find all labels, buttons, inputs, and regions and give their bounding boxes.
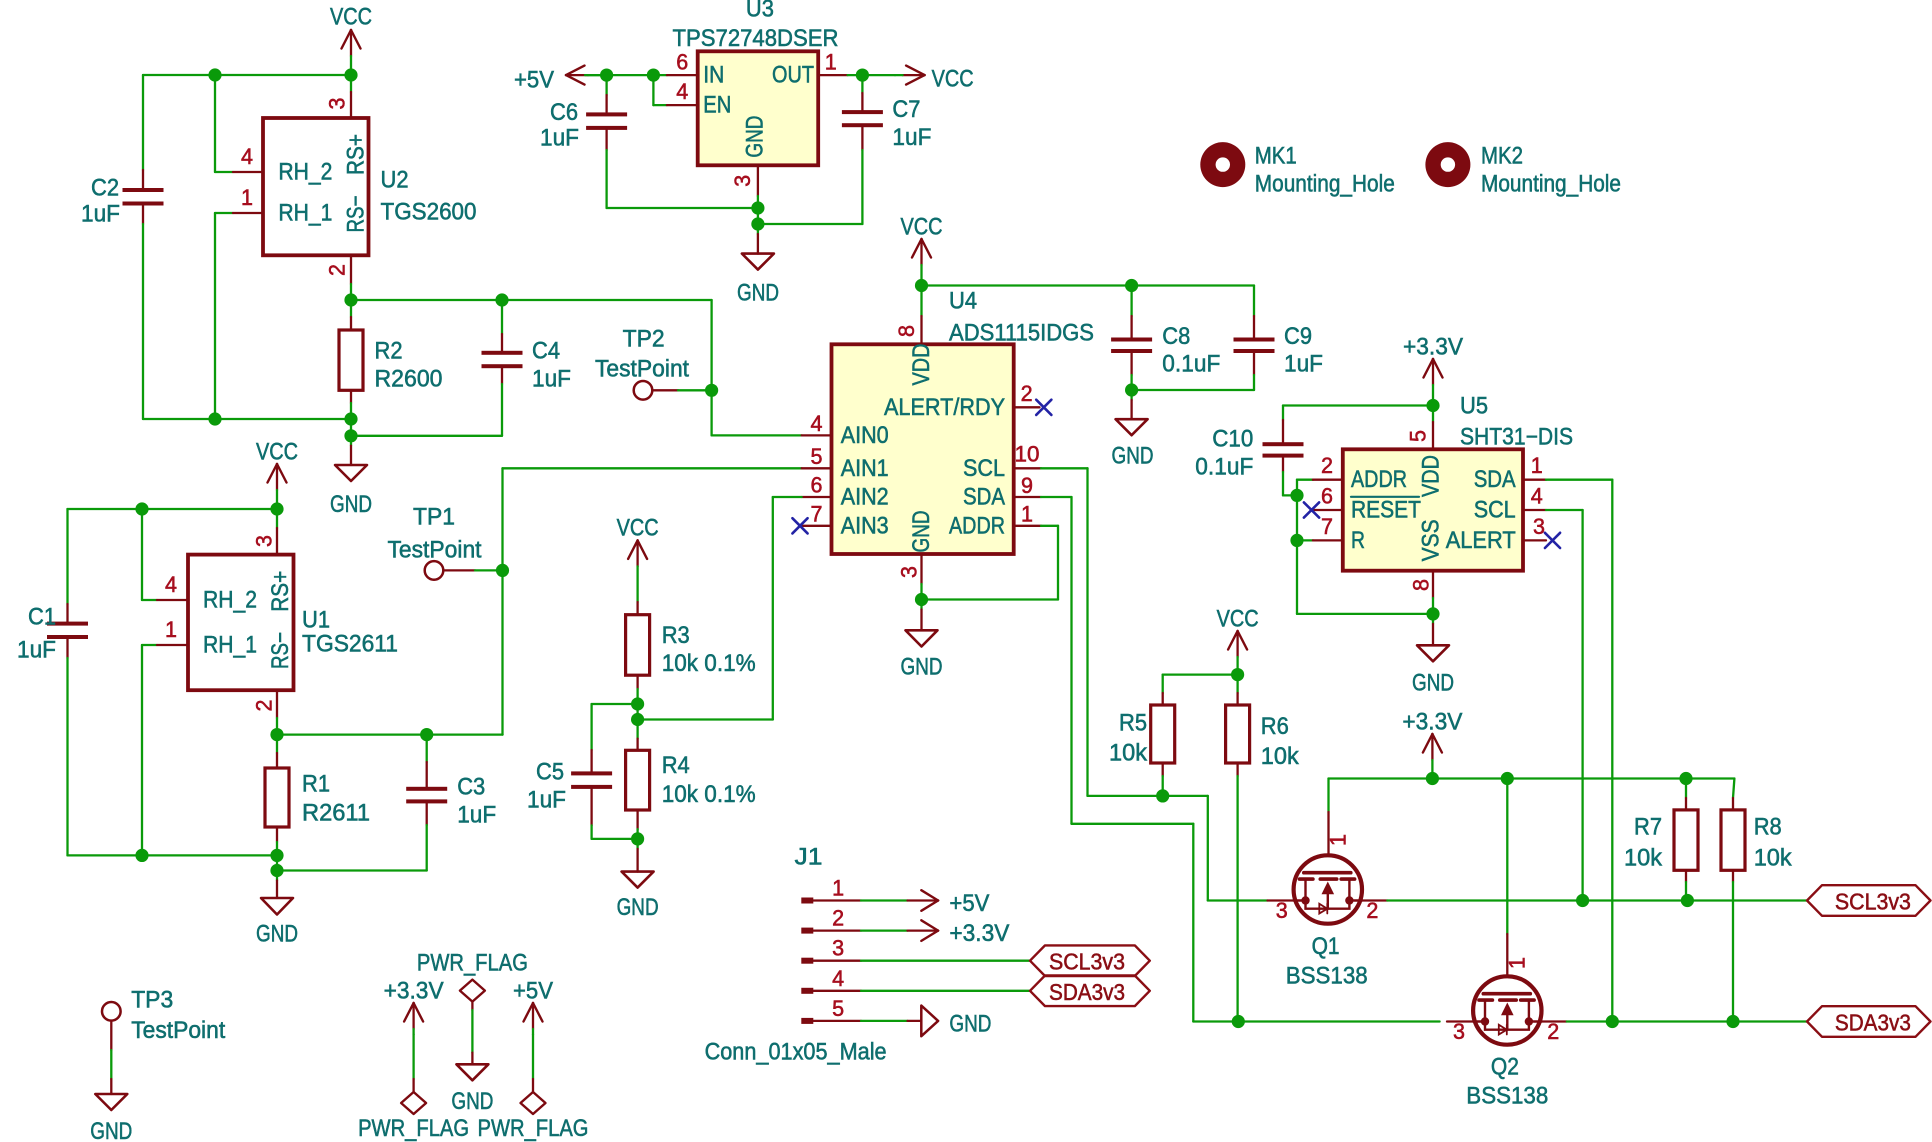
junction [420,728,433,741]
junction [751,201,764,214]
ground GND (U4) [901,600,943,681]
power flag GND [417,950,528,1116]
power symbol VCC (U2) [330,4,372,76]
svg-text:1: 1 [1326,834,1351,846]
junction [1426,772,1439,785]
power symbol VCC (R3) [617,515,659,603]
svg-text:R2600: R2600 [375,366,443,393]
svg-text:R: R [1351,527,1365,554]
junction [1501,772,1514,785]
U5 pin 7 [1313,514,1343,541]
hierarchical label SCL3v3 (J1) [1030,945,1150,976]
power flag +3.3V [358,978,469,1142]
svg-text:U1: U1 [302,607,330,634]
junction [496,564,509,577]
svg-text:1uF: 1uF [1284,351,1323,378]
svg-text:+3.3V: +3.3V [1402,709,1462,736]
svg-text:R6: R6 [1261,713,1289,740]
junction [208,68,221,81]
svg-text:C3: C3 [457,774,485,801]
ground GND (U1) [256,871,298,948]
regulator U3 body [698,51,819,165]
svg-text:GND: GND [901,654,943,681]
svg-text:MK1: MK1 [1255,143,1297,170]
svg-text:TestPoint: TestPoint [388,537,482,564]
svg-text:6: 6 [1321,484,1333,509]
capacitor C7 [842,75,883,224]
junction [915,279,928,292]
label C6 value [540,99,579,152]
power symbol +3.3V (J1) [908,920,1010,947]
resistor R4 [626,720,650,839]
svg-text:R2611: R2611 [302,800,370,827]
resistor R3 [626,602,650,704]
hierarchical label SDA3v3 (right) [1807,1006,1931,1037]
U1 pin 1 [157,617,188,645]
wire VCC rail U4 [922,284,1255,286]
U4 pin 5 [802,444,832,469]
svg-text:RS−: RS− [343,196,370,233]
resistor R7 [1674,779,1698,901]
svg-text:1uF: 1uF [527,787,566,814]
svg-text:AIN2: AIN2 [841,484,889,511]
wire VCC rail U1 [68,508,278,510]
junction [856,69,869,82]
mounting hole MK1 [1200,142,1395,197]
J1 pin 3 [801,936,861,964]
junction [631,697,644,710]
junction [1290,489,1303,502]
ground GND (TP3) [90,1079,132,1142]
svg-text:R4: R4 [662,752,690,779]
label C9 value [1284,323,1323,378]
wire J1 pin5 [861,1020,908,1022]
wire divider mid to AIN2 [638,497,802,720]
wire SCL3v3 row [1387,899,1807,901]
junction [344,293,357,306]
svg-text:C9: C9 [1284,323,1312,350]
svg-text:Mounting_Hole: Mounting_Hole [1481,171,1621,198]
junction [344,68,357,81]
svg-text:VDD: VDD [908,344,935,386]
label R1 value [302,771,370,827]
svg-text:4: 4 [165,572,177,597]
svg-text:GND: GND [737,279,779,306]
svg-text:MK2: MK2 [1481,143,1523,170]
test point TP1 [388,504,503,580]
junction [270,849,283,862]
junction [1426,399,1439,412]
svg-text:TP1: TP1 [413,504,455,531]
U5 pin 2 [1313,453,1343,480]
label C8 value [1162,323,1220,378]
svg-text:5: 5 [1406,430,1431,442]
svg-text:SCL3v3: SCL3v3 [1835,889,1911,915]
power symbol +3.3V (U5) [1403,334,1463,406]
wire AIN1 net [503,468,802,734]
U3 pin 6 [667,49,698,75]
sensor U2 body [263,118,370,255]
U3 pin 1 [818,49,847,75]
resistor R8 [1721,779,1745,1022]
ground GND (U5) [1412,614,1454,697]
svg-text:VCC: VCC [901,214,943,241]
svg-text:R2: R2 [375,338,403,365]
label R8 value [1754,813,1793,871]
svg-text:AIN0: AIN0 [841,422,889,449]
wire J1 pin2 [861,929,908,931]
wire J1 pin1 [861,899,908,901]
svg-text:+3.3V: +3.3V [384,978,444,1005]
svg-text:SCL: SCL [963,455,1005,482]
svg-text:PWR_FLAG: PWR_FLAG [478,1115,589,1142]
wire U4 SDA net down [1041,497,1440,1022]
label J1 value [705,1039,887,1066]
label U2 refdes [381,167,477,226]
svg-text:RH_2: RH_2 [203,587,257,614]
junction [1606,1015,1619,1028]
wire ADDR to GND [922,526,1059,600]
junction [1681,894,1694,907]
transistor Q1 [1268,779,1388,924]
svg-text:+3.3V: +3.3V [1403,334,1463,361]
label C5 value [527,759,566,814]
svg-text:1: 1 [1505,957,1530,969]
svg-text:1uF: 1uF [17,637,56,664]
svg-text:6: 6 [676,49,688,74]
label C2 value [81,175,120,228]
capacitor C10 [1263,406,1304,496]
wire to C5 [592,704,638,750]
svg-text:RH_1: RH_1 [278,200,332,227]
svg-text:BSS138: BSS138 [1466,1083,1548,1110]
junction [344,412,357,425]
svg-text:VCC: VCC [256,439,298,466]
hierarchical label SCL3v3 (right) [1807,885,1931,916]
svg-text:4: 4 [811,411,823,436]
svg-text:TP3: TP3 [131,987,173,1014]
svg-text:SCL: SCL [1474,497,1516,524]
svg-text:GND: GND [1112,443,1154,470]
svg-text:GND: GND [617,894,659,921]
svg-text:3: 3 [325,98,350,110]
wire EN connection [653,75,667,105]
U1 pin 4 [157,572,188,600]
svg-text:Mounting_Hole: Mounting_Hole [1255,171,1395,198]
junction [135,849,148,862]
svg-text:OUT: OUT [772,62,814,89]
connector J1 label [795,844,823,871]
U4 pin 10 SCL [1014,441,1041,468]
svg-text:1: 1 [241,185,253,210]
svg-text:U4: U4 [949,287,977,314]
svg-text:1uF: 1uF [532,366,571,393]
svg-text:0.1uF: 0.1uF [1162,351,1220,378]
power symbol +5V (U3) [514,66,607,94]
junction [270,502,283,515]
junction [1726,1015,1739,1028]
resistor R2 [339,300,363,419]
svg-text:SDA: SDA [1474,466,1516,493]
svg-text:+5V: +5V [949,890,989,917]
svg-text:2: 2 [252,700,277,712]
junction [1290,534,1303,547]
svg-text:EN: EN [703,92,731,119]
svg-text:GND: GND [908,511,935,553]
label R2 value [375,338,443,393]
wire C8 C9 ground [1132,389,1254,391]
svg-text:C5: C5 [536,759,564,786]
wire J1 pin3 [861,960,1030,962]
power symbol +3.3V (Q1 Q2) [1402,709,1462,779]
junction [135,502,148,515]
svg-text:5: 5 [832,996,844,1021]
svg-text:BSS138: BSS138 [1286,962,1368,989]
svg-text:C10: C10 [1212,426,1253,453]
wire U3 ground rail [607,208,863,224]
label C7 value [892,96,931,151]
sensor U1 body [188,555,294,691]
wire U5 SCL out [1546,510,1583,901]
svg-text:0.1uF: 0.1uF [1195,454,1253,481]
svg-text:ALERT: ALERT [1446,527,1516,554]
ground GND (R4) [617,839,659,921]
junction [1576,894,1589,907]
power symbol VCC (R5 R6) [1217,606,1259,675]
svg-text:1: 1 [1531,453,1543,478]
U2 pin 3 [325,75,352,118]
label U1 refdes [302,607,398,658]
power symbol VCC (U1) [256,439,298,510]
junction [600,69,613,82]
svg-text:VCC: VCC [330,4,372,31]
capacitor C9 [1234,286,1275,391]
svg-text:3: 3 [1453,1019,1465,1044]
label Q1 refdes [1286,933,1368,989]
wire to U1 pin 4 [142,509,157,600]
svg-text:10k: 10k [1624,845,1663,872]
junction [705,384,718,397]
svg-text:RH_2: RH_2 [278,159,332,186]
svg-text:AIN3: AIN3 [841,512,889,539]
svg-text:VCC: VCC [932,66,974,93]
svg-text:RS+: RS+ [267,571,294,612]
svg-text:1: 1 [832,876,844,901]
svg-text:3: 3 [897,566,922,578]
capacitor C6 [586,75,627,208]
label U5 refdes [1460,393,1573,451]
U3 pin 4 [667,79,698,105]
svg-text:ADDR: ADDR [949,512,1005,539]
svg-text:9: 9 [1021,473,1033,498]
svg-text:VSS: VSS [1418,519,1445,561]
svg-text:C1: C1 [28,604,56,631]
ground GND (C8) [1112,390,1154,470]
svg-text:U3: U3 [746,0,774,23]
svg-text:5: 5 [811,444,823,469]
wire ADDR and R net [1297,480,1433,614]
U4 pin 4 [802,411,832,436]
svg-text:TPS72748DSER: TPS72748DSER [673,25,839,52]
svg-text:ALERT/RDY: ALERT/RDY [884,394,1005,421]
svg-text:SDA3v3: SDA3v3 [1049,979,1125,1005]
svg-text:R3: R3 [662,622,690,649]
wire U4 SCL net down [1041,468,1268,900]
label U3 refdes [673,0,839,52]
capacitor C5 [571,750,638,839]
label C10 value [1195,426,1253,481]
svg-text:PWR_FLAG: PWR_FLAG [358,1115,469,1142]
svg-text:2: 2 [1366,898,1378,923]
junction [631,713,644,726]
svg-text:RS+: RS+ [343,134,370,175]
svg-text:7: 7 [1321,514,1333,539]
svg-text:GND: GND [451,1088,493,1115]
svg-text:SHT31−DIS: SHT31−DIS [1460,424,1573,451]
wire VCC rail U2 [143,74,351,76]
resistor R5 [1151,693,1175,796]
junction [1125,279,1138,292]
svg-text:TestPoint: TestPoint [131,1017,225,1044]
mounting hole MK2 [1425,142,1621,197]
svg-text:1: 1 [1021,502,1033,527]
svg-text:2: 2 [832,906,844,931]
svg-text:1: 1 [165,617,177,642]
U5 pin 5 [1406,406,1434,450]
svg-text:SDA3v3: SDA3v3 [1835,1010,1911,1036]
wire GND rail U1 [68,855,427,870]
hierarchical label SDA3v3 (J1) [1030,976,1150,1007]
svg-text:GND: GND [1412,670,1454,697]
svg-text:TestPoint: TestPoint [595,355,689,382]
power symbol VCC (U3 out) [895,66,974,93]
wire U1 pin2 row [277,733,503,735]
svg-text:GND: GND [330,491,372,518]
svg-text:1uF: 1uF [81,201,120,228]
svg-text:RH_1: RH_1 [203,632,257,659]
svg-text:3: 3 [1276,898,1288,923]
U4 pin 7 no-connect [792,501,831,533]
junction [270,728,283,741]
svg-text:7: 7 [811,501,823,526]
svg-text:10k: 10k [1261,743,1300,770]
power flag +5V [478,978,589,1142]
svg-text:3: 3 [1533,514,1545,539]
svg-text:SCL3v3: SCL3v3 [1049,949,1125,975]
J1 pin 5 [801,996,861,1024]
svg-text:4: 4 [832,966,844,991]
wire from U2 pin 1 [215,213,233,419]
svg-text:GND: GND [949,1010,991,1037]
svg-text:10k: 10k [1754,845,1793,872]
wire J1 pin4 [861,990,1030,992]
svg-text:Q2: Q2 [1491,1054,1519,1081]
junction [631,832,644,845]
svg-text:RS−: RS− [267,632,294,669]
capacitor C3 [406,735,447,871]
wire from U1 pin 1 [142,645,157,855]
svg-text:2: 2 [1321,453,1333,478]
test point TP2 [595,325,712,399]
U5 pin 1 SDA [1523,453,1546,480]
junction [1125,383,1138,396]
U4 pin 8 [894,286,922,345]
junction [270,864,283,877]
svg-text:ADS1115IDGS: ADS1115IDGS [949,320,1094,347]
svg-text:1uF: 1uF [457,802,496,829]
svg-text:8: 8 [1408,579,1433,591]
U5 pin 8 [1408,571,1433,614]
label R5 value [1109,710,1148,767]
U4 pin 9 SDA [1014,473,1041,498]
junction [1679,772,1692,785]
svg-text:VDD: VDD [1418,455,1445,497]
svg-text:Q1: Q1 [1312,933,1340,960]
svg-text:3: 3 [730,175,755,187]
svg-text:C4: C4 [532,338,560,365]
label Q2 refdes [1466,1054,1548,1110]
svg-text:+5V: +5V [513,978,553,1005]
J1 pin 1 [801,876,861,904]
svg-text:PWR_FLAG: PWR_FLAG [417,950,528,977]
svg-text:8: 8 [894,325,919,337]
label C4 value [532,338,571,393]
U2 pin 1 [233,185,263,213]
svg-text:1uF: 1uF [540,125,579,152]
svg-text:10k 0.1%: 10k 0.1% [662,650,756,677]
test point TP3 [102,987,226,1080]
label R3 value [662,622,756,677]
capacitor C2 [123,75,164,419]
resistor R6 [1226,693,1250,1022]
svg-text:TGS2600: TGS2600 [381,199,477,226]
label U4 refdes [949,287,1094,346]
power symbol VCC (U4) [901,214,943,286]
U2 pin 2 [325,255,352,300]
junction [1426,607,1439,620]
svg-text:U5: U5 [1460,393,1488,420]
transistor Q2 [1447,779,1567,1045]
svg-text:+3.3V: +3.3V [949,920,1009,947]
svg-text:R5: R5 [1119,710,1147,737]
junction [915,593,928,606]
label R4 value [662,752,756,808]
svg-text:U2: U2 [381,167,409,194]
svg-text:6: 6 [811,473,823,498]
U4 pin 6 [802,473,832,498]
wire +3.3V rail [1329,777,1735,779]
svg-text:3: 3 [252,535,277,547]
svg-text:R7: R7 [1634,813,1662,840]
svg-text:ADDR: ADDR [1351,466,1407,493]
U1 pin 2 [252,690,278,734]
wire OUT to VCC [848,74,895,76]
U5 pin 6 no-connect [1304,484,1343,518]
wire +5V rail [585,74,667,76]
junction [495,293,508,306]
svg-text:TGS2611: TGS2611 [302,631,398,658]
label C1 value [17,604,56,664]
junction [344,429,357,442]
J1 pin 4 [801,966,861,994]
U4 pin 3 GND [897,554,922,600]
wire VCC to R5 [1163,675,1238,693]
svg-text:GND: GND [90,1118,132,1142]
junction [208,412,221,425]
svg-text:Conn_01x05_Male: Conn_01x05_Male [705,1039,887,1066]
junction [1231,668,1244,681]
svg-text:2: 2 [1021,381,1033,406]
